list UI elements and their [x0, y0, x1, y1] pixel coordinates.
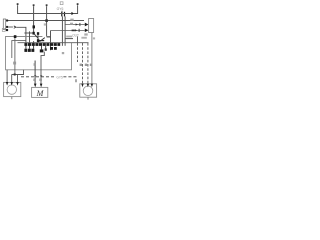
switch lever diagonal S1: [40, 38, 45, 42]
terminal square on K1 top edge: [14, 35, 17, 38]
arrowhead into P2 pin 1: [81, 84, 83, 88]
bus A horizontal y13.5: [17, 13, 72, 15]
stubs between band rows: [26, 46, 34, 49]
socket tick row 1: [79, 23, 80, 26]
wire W6 from terminal down inside K1: [14, 38, 16, 75]
black arrowhead into connector box row 2: [85, 29, 89, 33]
wire down to washer pump pin 2: [11, 75, 13, 83]
connector pin band row 1 (terminal strip): [24, 43, 27, 46]
stub x33.5 into band: [33, 41, 35, 46]
node terminal dot T5 (top of stub x77.5): [77, 3, 79, 5]
svg-text:M: M: [36, 89, 45, 98]
terminal blob lower x38: [37, 39, 39, 42]
wire W3 vertical x46.5 down to corner at y37: [46, 6, 48, 37]
label near C1 drop wire: [93, 37, 95, 39]
arrow into pump arrow line 1 (to connector box top right): [65, 24, 85, 26]
dashed wire to rear pump pin 1: [82, 43, 84, 84]
wire x77.5 solid from bar area to rail: [77, 36, 79, 43]
wire corner W3a from x46.5 to x50.5 along y37: [47, 36, 51, 38]
wire W2 vertical x33.5 from T2 down to connector band: [33, 6, 35, 34]
label under C1: [84, 33, 87, 35]
arrow line 2 from W7 corner to connector box: [51, 30, 85, 32]
black arrowhead into connector box row 1: [85, 23, 89, 27]
wire continues right then corner down into module at x25.9: [16, 27, 26, 37]
wire vertical x29.5 (switch contact): [29, 31, 31, 46]
dashed drop x77.5: [77, 43, 79, 62]
label right of x77.5 wire: [81, 37, 86, 39]
inline connector halves on X1-2 wire: [14, 26, 16, 28]
contact row horizontal y33: [24, 32, 34, 34]
K1 top-right bar segment: [66, 38, 74, 40]
connector label square (top of x62 wire): [60, 2, 63, 5]
connector box C1 (tall, top right): [89, 19, 94, 33]
control module K1 enclosure (big box): [6, 37, 72, 70]
label on bus B near x71: [70, 19, 73, 21]
arrowhead into P2 pin 3: [91, 84, 93, 88]
wire W10 to wiper motor left pin: [34, 61, 36, 85]
node terminal dot T1 (top of stub x17.5): [17, 3, 19, 5]
connector pin band row 2 middle: [40, 49, 44, 52]
switch lever diagonal S1a (from junction to x38 contact): [34, 34, 39, 39]
inline connector arrow row 2: [75, 29, 77, 31]
junction blob on W2 at y33: [33, 32, 35, 35]
label on W10: [34, 63, 36, 66]
wire corner from K1 bottom via x23.5 to y74.5 rail: [12, 70, 24, 75]
svg-text:GY5: GY5: [56, 75, 63, 79]
arrowhead into M motor pin 1: [34, 84, 37, 88]
wire colour labels on drops: [80, 64, 82, 66]
inline connector arrow row 1: [76, 23, 78, 25]
wire pair W8a vertical x62.5 from bus A to band: [61, 16, 63, 45]
pin dot X1-1: [6, 20, 8, 22]
sheath dashed line right part with corner down: [63, 77, 76, 83]
svg-text:GY6: GY6: [57, 7, 64, 11]
wire W7 vertical x50.5 from corner y30.5 down through band: [50, 31, 52, 51]
rear pump P2 box: [80, 84, 97, 97]
dark segment on row 2: [72, 30, 75, 32]
label on wire W6: [13, 62, 16, 65]
connector X1 (left edge two-pin block): [3, 19, 5, 29]
wiper motor M1 box: [32, 87, 48, 97]
wire vertical x26 lower part to band: [25, 37, 27, 46]
svg-text:OUT: OUT: [72, 33, 79, 37]
inner relay box corner inside K1: [12, 41, 26, 58]
wire from K1 bottom to washer pump pin 1: [6, 70, 8, 82]
wire labels above M motor: [33, 79, 36, 81]
label small (right of junction): [44, 23, 46, 25]
arrowhead into P1 pin 2: [11, 82, 13, 86]
connector bars at bus A junction: [61, 12, 62, 17]
P2 pump circle: [83, 86, 93, 96]
wire stub from T5 down then left to bus A: [74, 5, 78, 13]
arrowhead into P2 pin 2: [87, 84, 89, 88]
arrowhead into P1 pin 1: [6, 82, 8, 86]
small connector symbol top-left (open box): [2, 28, 5, 31]
washer pump P1 box: [4, 82, 21, 96]
solid wire from C1 bottom to rear pump pin 3: [91, 33, 93, 84]
wire pair W8b vertical x65.5 from bus A to band: [64, 16, 66, 45]
wire down to washer pump pin 3: [17, 75, 19, 83]
terminal blob top of x38: [37, 32, 39, 35]
junction dot W6 meets rail: [14, 74, 16, 76]
tick crossings on motor wires at sheath: [34, 75, 42, 77]
cable sheath dashed line y76.8: [21, 76, 56, 78]
node terminal dot T3 (top of wire x46.5): [46, 4, 48, 6]
dashed wire to rear pump pin 2: [87, 43, 89, 84]
arrowhead into M motor pin 2: [40, 84, 43, 88]
inline connector arrow on bus A: [71, 12, 74, 15]
wire stub x62 from label to bus A: [61, 11, 63, 14]
label on arrow line 1: [70, 23, 73, 25]
wire stub from T1 down to bus A: [17, 5, 19, 13]
P2 ground stub: [87, 97, 89, 99]
label near K1 right edge: [62, 52, 64, 54]
small connector black pin: [6, 29, 8, 31]
P1 ground stub: [11, 97, 13, 100]
thin rail y42.5 across to x88.5: [18, 42, 89, 44]
arrowhead into P1 pin 3: [16, 82, 18, 86]
bus B horizontal y20.5: [7, 20, 84, 22]
node junction dot on bus B at x46.5: [45, 19, 48, 22]
wire vertical x38 with terminals: [37, 33, 39, 46]
label above bar (pin numbers): [66, 36, 72, 38]
wire from band2 to wiper motor: corner path: [41, 52, 44, 85]
socket tick row 2: [79, 29, 80, 32]
gap in K1 top edge: [42, 36, 46, 38]
terminal block on W2 at y27: [33, 25, 36, 28]
stub band1 to band2 middle: [42, 46, 46, 50]
wire from X1-2 rightwards: [8, 26, 13, 28]
contact segment y40.5: [39, 40, 44, 42]
node terminal dot T2 (top of wire x33.5): [33, 4, 35, 6]
connector pin band row 2 left: [24, 49, 27, 52]
connector pin band row 2 right: [50, 47, 53, 50]
P1 pump circle: [7, 85, 16, 94]
pin dot X1-2: [6, 26, 8, 28]
